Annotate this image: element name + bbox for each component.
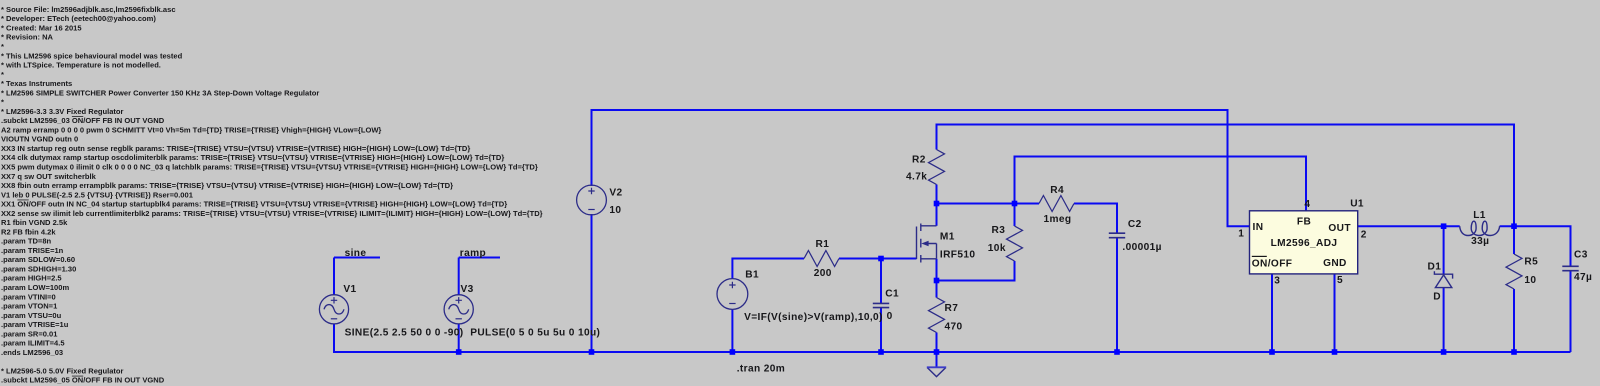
svg-text:sine: sine [345,248,367,259]
netlist comment text block [1,5,543,385]
wire: ground stem [936,352,938,368]
wire: R2 top rail to output node [937,125,1515,227]
svg-text:R3: R3 [992,225,1006,236]
svg-text:* Source File: lm2596adjblk.as: * Source File: lm2596adjblk.asc,lm2596fi… [1,5,176,14]
wire: mid rail to FB pin [1015,157,1307,211]
svg-text:IRF510: IRF510 [940,250,975,261]
svg-text:* This LM2596 spice behavioura: * This LM2596 spice behavioural model wa… [1,51,183,60]
svg-text:.param SDLOW=0.60: .param SDLOW=0.60 [1,255,75,264]
svg-text:XX3 IN startup reg outn sense: XX3 IN startup reg outn sense regblk par… [1,144,470,153]
svg-text:V3: V3 [461,284,474,295]
svg-text:33µ: 33µ [1471,236,1489,247]
svg-text:* Texas Instruments: * Texas Instruments [1,79,72,88]
svg-text:.ends LM2596_03: .ends LM2596_03 [1,348,63,357]
svg-text:2: 2 [1361,230,1367,241]
svg-text:.param ILIMIT=4.5: .param ILIMIT=4.5 [1,339,65,348]
svg-text:*: * [1,98,4,107]
svg-text:* Developer: ETech (eetech00@y: * Developer: ETech (eetech00@yahoo.com) [1,14,156,23]
op-amp U1 (LM2596_ADJ block) [1250,211,1358,274]
resistor R2 [929,150,945,185]
svg-text:IN: IN [1253,222,1264,233]
svg-text:10k: 10k [988,243,1006,254]
svg-text:PULSE(0 5 0 5u 5u 0 10u): PULSE(0 5 0 5u 5u 0 10u) [470,327,600,338]
wire: OUT pin to L1 [1358,225,1460,227]
svg-text:V1: V1 [343,284,356,295]
wire: U1 pin5 to bus [1334,274,1336,352]
wire: C1 bottom lead [880,308,882,352]
node sine: stub [334,257,380,259]
svg-text:XX5 pwm dutymax 0 ilimit 0 clk: XX5 pwm dutymax 0 ilimit 0 clk 0 0 0 0 N… [1,162,538,171]
wire: V3 top [458,258,460,296]
wire: C3 bottom lead [1570,271,1572,352]
svg-text:OUT: OUT [1328,223,1351,234]
node ramp: stub [459,257,500,259]
resistor R3 [1007,226,1023,261]
svg-text:.param VTSU=0u: .param VTSU=0u [1,311,62,320]
svg-text:.param SDHIGH=1.30: .param SDHIGH=1.30 [1,264,76,273]
wire: V3 bottom [458,324,460,353]
wire: V2 bottom to ground bus [591,214,593,352]
svg-text:10: 10 [1524,275,1536,286]
svg-text:C3: C3 [1574,250,1588,261]
svg-text:0: 0 [887,311,893,322]
svg-text:* Revision: NA: * Revision: NA [1,33,54,42]
svg-text:ON/OFF: ON/OFF [1252,259,1293,270]
inductor L1 [1460,221,1500,235]
svg-text:V2: V2 [609,188,622,199]
wire: V2 top rail to U1 IN [592,110,1250,226]
svg-text:R1 fbin VGND 2.5k: R1 fbin VGND 2.5k [1,218,68,227]
capacitor C2 [1109,233,1125,238]
svg-text:R4: R4 [1050,185,1064,196]
ground [927,368,945,377]
wire: C1 top lead [880,259,882,304]
svg-text:XX1 ON/OFF outn IN NC_04 start: XX1 ON/OFF outn IN NC_04 startup startup… [1,200,507,209]
svg-text:* with LTSpice. Temperature is: * with LTSpice. Temperature is not model… [1,61,161,70]
overline for ON [1252,255,1267,257]
svg-text:* LM2596-3.3 3.3V Fixed Regula: * LM2596-3.3 3.3V Fixed Regulator [1,107,124,116]
behavioural source B1 [717,279,748,310]
junction dots [456,349,462,355]
svg-text:V1 leb 0 PULSE(-2.5 2.5 {VTSU}: V1 leb 0 PULSE(-2.5 2.5 {VTSU} {VTRISE})… [1,190,193,199]
signal source V1 [319,295,348,324]
svg-text:ramp: ramp [460,248,486,259]
svg-text:C1: C1 [885,289,899,300]
wire: R4 leads [1015,204,1118,234]
wire: C2 bottom lead [1116,238,1118,352]
wire: D1 bottom lead [1443,288,1445,352]
svg-text:* Created: Mar 16 2015: * Created: Mar 16 2015 [1,23,82,32]
svg-text:*: * [1,42,4,51]
svg-text:10: 10 [609,205,621,216]
svg-text:R2 FB fbin 4.2k: R2 FB fbin 4.2k [1,227,56,236]
svg-text:.param TRISE=1n: .param TRISE=1n [1,246,64,255]
svg-text:.param VTRISE=1u: .param VTRISE=1u [1,320,69,329]
svg-text:.param TD=8n: .param TD=8n [1,237,52,246]
transistor M1 [917,224,937,263]
svg-text:L1: L1 [1473,210,1486,221]
svg-text:A2 ramp erramp 0 0 0 0 pwm 0 S: A2 ramp erramp 0 0 0 0 pwm 0 SCHMITT Vt=… [1,125,381,134]
svg-text:.subckt LM2596_03 ON/OFF FB IN: .subckt LM2596_03 ON/OFF FB IN OUT VGND [1,116,165,125]
svg-text:GND: GND [1323,258,1347,269]
svg-text:.tran 20m: .tran 20m [737,364,785,375]
svg-text:.subckt LM2596_05 ON/OFF FB IN: .subckt LM2596_05 ON/OFF FB IN OUT VGND [1,376,165,385]
wire: R3 top lead [1014,204,1016,227]
svg-text:D: D [1433,292,1441,303]
svg-text:V=IF(V(sine)>V(ramp),10,0): V=IF(V(sine)>V(ramp),10,0) [744,312,883,323]
wire: B1 top to R1 row [732,259,804,279]
svg-text:C2: C2 [1128,219,1142,230]
wire: M1 source [936,259,938,281]
signal source V3 [444,295,473,324]
svg-text:4: 4 [1304,199,1310,210]
wire: M1 drain [936,204,938,226]
wire: R7 leads [936,281,938,353]
svg-text:XX8 fbin outn erramp errampblk: XX8 fbin outn erramp errampblk params: T… [1,181,453,190]
svg-text:XX2 sense sw ilimit leb curren: XX2 sense sw ilimit leb currentlimiterbl… [1,209,543,218]
wire: drain junction to R3 junction [937,203,1015,205]
svg-text:* LM2596 SIMPLE SWITCHER Power: * LM2596 SIMPLE SWITCHER Power Converter… [1,88,319,97]
wire: U1 pin3 to bus [1271,274,1273,352]
svg-text:3: 3 [1274,276,1280,287]
resistor R5 [1506,254,1522,289]
wire: R1 to M1 gate [839,258,917,260]
resistor R7 [929,298,945,333]
svg-text:.param HIGH=2.5: .param HIGH=2.5 [1,274,62,283]
svg-text:VIOUTN VGND outn 0: VIOUTN VGND outn 0 [1,135,78,144]
svg-text:R5: R5 [1524,257,1538,268]
wire: ground bus [334,351,1571,353]
svg-text:.00001µ: .00001µ [1122,242,1161,253]
svg-text:.param VTON=1: .param VTON=1 [1,302,57,311]
svg-text:M1: M1 [940,231,955,242]
svg-text:47µ: 47µ [1574,272,1592,283]
wire: L1 to C3 corner [1500,226,1571,266]
svg-text:LM2596_ADJ: LM2596_ADJ [1271,238,1338,249]
resistor R1 [804,251,839,267]
resistor R4 [1039,196,1074,212]
capacitor C1 [873,303,889,307]
svg-text:FB: FB [1297,217,1311,228]
svg-text:R7: R7 [945,303,959,314]
wire: D1 top lead [1443,226,1445,274]
svg-text:1meg: 1meg [1044,214,1072,225]
svg-text:R1: R1 [816,239,830,250]
svg-text:*: * [1,70,4,79]
svg-text:4.7k: 4.7k [906,172,927,183]
voltage source V2 [577,185,607,215]
svg-text:XX7 q sw OUT switcherblk: XX7 q sw OUT switcherblk [1,172,97,181]
svg-text:B1: B1 [745,270,759,281]
wire: V1 bottom [333,324,335,354]
diode D1 [1434,271,1452,287]
wire: V1 top [333,258,335,296]
svg-text:5: 5 [1337,275,1343,286]
svg-text:.param SR=0.01: .param SR=0.01 [1,329,57,338]
svg-text:.param LOW=100m: .param LOW=100m [1,283,69,292]
wire: source junction to R3 bottom [937,261,1015,281]
svg-text:D1: D1 [1428,261,1442,272]
svg-text:SINE(2.5 2.5 50 0 0 -90): SINE(2.5 2.5 50 0 0 -90) [345,327,464,338]
svg-text:R2: R2 [912,154,926,165]
svg-text:XX4 clk dutymax ramp startup o: XX4 clk dutymax ramp startup oscdolimite… [1,153,504,162]
wire: B1 bottom [731,310,733,352]
wire: R2 bottom to drain junction [936,185,938,204]
svg-text:470: 470 [945,322,963,333]
svg-text:200: 200 [814,268,832,279]
wire: R5 leads [1513,226,1515,352]
svg-text:* LM2596-5.0 5.0V Fixed Regula: * LM2596-5.0 5.0V Fixed Regulator [1,366,124,375]
capacitor C3 [1562,266,1578,270]
svg-text:U1: U1 [1350,199,1364,210]
svg-text:1: 1 [1238,229,1244,240]
svg-text:.param VTINI=0: .param VTINI=0 [1,292,56,301]
